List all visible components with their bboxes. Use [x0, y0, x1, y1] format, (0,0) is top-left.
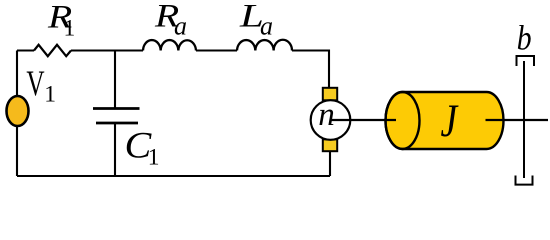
capacitor C1 bottom plate: [96, 122, 138, 125]
wire capacitor branch upper: [114, 51, 116, 109]
bearing b vertical line: [523, 61, 525, 178]
svg-text:V: V: [26, 63, 45, 104]
cylinder J body: [386, 92, 504, 149]
cylinder J left end cap ellipse: [386, 92, 420, 149]
bearing bottom bracket: [516, 176, 533, 185]
svg-text:1: 1: [64, 16, 76, 42]
voltage source V1: [7, 96, 29, 126]
resistor R1 zigzag: [34, 45, 71, 56]
wire between R1 and Ra: [71, 49, 143, 51]
wire left vertical lower: [16, 126, 18, 177]
shaft left (motor to cylinder): [330, 119, 396, 121]
capacitor C1 top plate: [93, 107, 140, 110]
wire top-left horizontal: [17, 49, 34, 51]
inductor La (3 humps): [237, 40, 292, 51]
motor circle: [311, 100, 351, 140]
wire capacitor branch lower: [114, 123, 116, 176]
svg-text:J: J: [441, 96, 460, 147]
svg-text:1: 1: [148, 145, 160, 171]
wire left vertical upper: [16, 51, 18, 97]
wire between Ra and La: [196, 49, 237, 51]
motor top brush square: [323, 88, 337, 101]
svg-text:1: 1: [44, 82, 56, 108]
svg-text:a: a: [260, 12, 273, 41]
bearing top bracket: [517, 56, 535, 66]
wire bottom rail: [17, 175, 330, 177]
wire motor bottom to rail: [329, 151, 331, 176]
svg-text:a: a: [174, 12, 187, 41]
svg-text:n: n: [318, 97, 335, 133]
svg-text:b: b: [517, 19, 532, 58]
wire from La to top-right corner, down to motor: [292, 51, 329, 89]
shaft right (cylinder to bearing): [486, 119, 549, 121]
motor bottom brush square: [323, 139, 337, 151]
inductor-style resistor Ra (3 humps): [143, 40, 196, 50]
